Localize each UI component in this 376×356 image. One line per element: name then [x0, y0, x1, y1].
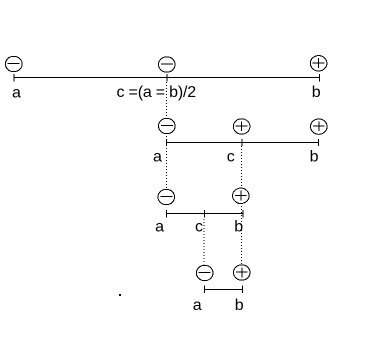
minus terminal above a2 — [159, 118, 176, 133]
plus terminal above b2 — [311, 119, 328, 134]
stray period dot — [119, 294, 121, 296]
tick b1 — [319, 74, 321, 82]
svg-text:b: b — [235, 297, 244, 314]
plus terminal above b4 — [234, 265, 251, 280]
interval line 4 — [205, 289, 243, 291]
interval line 3 — [166, 213, 243, 215]
svg-text:c =(a = b)/2: c =(a = b)/2 — [117, 84, 197, 101]
minus terminal above c1 — [159, 57, 176, 72]
svg-text:a: a — [193, 297, 202, 314]
tick b4 — [242, 286, 244, 294]
tick b3 — [242, 210, 244, 218]
tick a4 — [204, 286, 206, 294]
minus terminal above a3 — [158, 189, 175, 204]
tick a1 — [13, 74, 15, 82]
tick a3 — [165, 210, 167, 218]
dotted drop line from node c3 to node a4 — [203, 219, 205, 265]
plus terminal above b3 — [233, 188, 250, 203]
minus terminal above a1 — [5, 56, 22, 71]
svg-text:a: a — [155, 219, 164, 236]
tick c3 — [204, 210, 206, 218]
tick c1 — [166, 74, 168, 82]
tick b2 — [318, 139, 320, 146]
svg-text:b: b — [310, 149, 319, 166]
plus terminal above b1 — [310, 56, 327, 71]
svg-text:c: c — [195, 219, 203, 236]
plus terminal above c2 — [233, 119, 250, 134]
svg-text:b: b — [312, 84, 321, 101]
dotted drop line from node c1 to node a3 — [166, 82, 168, 189]
interval line 2 — [166, 142, 319, 144]
minus terminal above a4 — [196, 265, 213, 280]
interval line 1 (a..b) — [14, 77, 320, 79]
tick a2 — [165, 139, 167, 146]
svg-text:b: b — [234, 219, 243, 236]
svg-text:c: c — [227, 149, 235, 166]
tick c2 — [241, 139, 243, 146]
svg-text:a: a — [12, 85, 21, 102]
svg-text:a: a — [153, 149, 162, 166]
dotted drop line from node c2 to node b4 — [240, 146, 242, 264]
